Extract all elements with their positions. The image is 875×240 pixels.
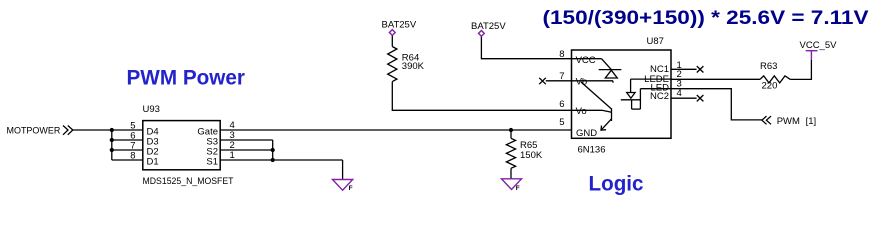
U87 internal photodiode: [599, 59, 622, 78]
junction dot: [110, 128, 114, 132]
label 6N136: [578, 145, 606, 156]
section label "Logic": [589, 172, 644, 196]
optocoupler U87 body: [572, 50, 672, 138]
junction dot: [110, 138, 114, 142]
junction dot: [271, 148, 275, 152]
U87 internal LEDE row line: [631, 78, 671, 80]
U87 pin names left VCC Vb Vo GND: [576, 55, 598, 139]
ground F (left): [333, 180, 353, 193]
off-page connector MOTPOWER: [7, 126, 73, 137]
power symbol VCC_5V: [800, 40, 838, 60]
svg-text:150K: 150K: [520, 150, 543, 161]
svg-text:6: 6: [559, 99, 564, 110]
resistor R64: [388, 47, 425, 82]
off-page connector PWM: [762, 116, 816, 127]
U87 pin numbers 8 7 6 5: [559, 49, 564, 128]
U93 pin numbers 4 3 2 1: [230, 120, 235, 161]
wire BAT25V to U87 pin 8: [481, 37, 571, 59]
svg-text:4: 4: [677, 88, 682, 99]
no-connect X on U87 pin 1: [671, 66, 703, 72]
junction dot: [110, 148, 114, 152]
power symbol BAT25V (left): [382, 20, 417, 36]
wire ground drop: [342, 160, 344, 180]
svg-text:390K: 390K: [402, 61, 425, 72]
ground F (right): [502, 179, 522, 192]
svg-text:U93: U93: [143, 104, 160, 115]
svg-text:MOTPOWER: MOTPOWER: [7, 126, 61, 137]
mosfet U93 body: [143, 121, 220, 170]
svg-text:F: F: [516, 185, 520, 192]
svg-text:R63: R63: [760, 61, 777, 72]
label U93: [143, 104, 160, 115]
svg-text:(150/(390+150)) * 25.6V = 7.11: (150/(390+150)) * 25.6V = 7.11V: [543, 7, 869, 29]
wire R63 to VCC_5V: [790, 60, 811, 80]
label U87: [647, 36, 664, 47]
wire U87 pin 3 to PWM: [671, 89, 762, 120]
svg-text:F: F: [349, 185, 353, 192]
U87 internal Vb row line: [572, 81, 614, 83]
U87 internal LED: [621, 79, 641, 109]
svg-text:VCC: VCC: [576, 55, 596, 66]
U87 internal phototransistor: [572, 108, 612, 130]
svg-text:NC2: NC2: [650, 91, 669, 102]
wire BAT25V to R64: [391, 36, 393, 47]
svg-text:BAT25V: BAT25V: [471, 21, 506, 32]
wire U93 S3 stub: [220, 139, 273, 141]
svg-text:VCC_5V: VCC_5V: [800, 40, 838, 51]
wire to U93 pin 6 (D3): [112, 139, 143, 141]
U87 pin names right NC1 LEDE LED NC2: [644, 64, 669, 102]
wire U93 S1 to ground: [220, 159, 342, 161]
svg-text:8: 8: [559, 49, 564, 60]
svg-text:Logic: Logic: [589, 172, 644, 196]
svg-text:U87: U87: [647, 36, 664, 47]
label MDS1525_N_MOSFET: [143, 176, 234, 187]
voltage divider formula annotation: [543, 7, 869, 29]
section label "PWM Power": [127, 66, 246, 90]
wire U87 pin 2 to R63: [671, 78, 760, 80]
svg-text:5: 5: [559, 117, 564, 128]
svg-text:Vo: Vo: [576, 106, 587, 117]
svg-text:8: 8: [130, 150, 135, 161]
svg-text:D1: D1: [147, 157, 159, 168]
wire U93 S2 stub: [220, 149, 273, 151]
svg-text:MDS1525_N_MOSFET: MDS1525_N_MOSFET: [143, 176, 234, 187]
svg-text:BAT25V: BAT25V: [382, 20, 417, 31]
junction dot: [271, 158, 275, 162]
no-connect X on U87 pin 7: [539, 78, 571, 84]
svg-text:GND: GND: [576, 128, 597, 139]
U93 pin names right Gate S3 S2 S1: [197, 127, 218, 168]
resistor R63: [760, 61, 790, 91]
wire MOTPOWER to U93 pin 5 (D4): [73, 129, 143, 131]
U87 pin numbers 1 2 3 4: [677, 60, 682, 99]
U87 internal LED row line: [640, 88, 671, 90]
wire junction to R65: [510, 130, 512, 138]
svg-text:PWM: PWM: [777, 116, 800, 127]
wire to U93 pin 7 (D2): [112, 149, 143, 151]
svg-text:6N136: 6N136: [578, 145, 606, 156]
svg-text:PWM Power: PWM Power: [127, 66, 246, 90]
U87 internal base diagonal: [581, 82, 612, 109]
wire source tie vertical: [272, 140, 274, 160]
wire R64 to U87 pin 6: [392, 82, 571, 111]
svg-text:[1]: [1]: [806, 116, 817, 127]
wire to U93 pin 8 (D1): [112, 159, 143, 161]
svg-text:S1: S1: [206, 157, 218, 168]
U93 pin names left D4 D3 D2 D1: [147, 127, 159, 168]
wire U93 gate to U87 pin 5: [220, 129, 571, 131]
resistor R65: [506, 138, 542, 168]
no-connect X on U87 pin 4: [671, 95, 703, 101]
U93 pin numbers 5 6 7 8: [130, 120, 135, 161]
U87 internal VCC row line: [572, 58, 602, 60]
wire R65 to ground: [510, 168, 512, 179]
junction dot: [509, 128, 513, 132]
svg-text:220: 220: [762, 80, 778, 91]
svg-text:1: 1: [230, 150, 235, 161]
power symbol BAT25V (right): [471, 21, 506, 36]
wire input bus vertical: [111, 130, 113, 160]
